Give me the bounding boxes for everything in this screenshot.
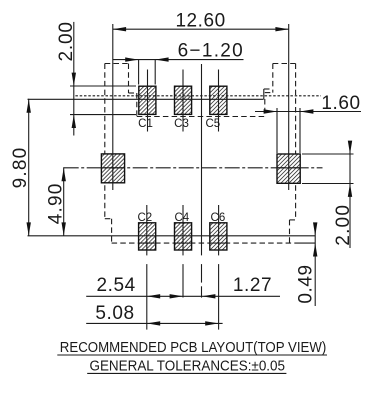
body outline left edge [104, 64, 106, 219]
svg-text:4.90: 4.90 [46, 183, 67, 225]
body outline top-left inner vertical [136, 93, 138, 117]
dimension 2.00 top-left extension top [70, 85, 136, 87]
svg-text:2.54: 2.54 [97, 275, 136, 296]
dimension 9.80 line [28, 99, 30, 236]
arrow 2.54 left [147, 294, 160, 298]
arrow 1.27 left [202, 294, 215, 298]
body outline bottom-left jog vertical [111, 219, 113, 243]
svg-text:9.80: 9.80 [10, 147, 31, 189]
body outline bottom-left jog horizontal [105, 218, 112, 220]
arrow 5.08 left [147, 321, 160, 325]
top seam line dashed [75, 95, 321, 97]
dimension 2.00 right extension top [302, 153, 354, 155]
dimension 2.00 top-left extension bottom [70, 114, 136, 116]
arrow 4.90 top [62, 168, 66, 181]
arrow 2.00 top-left upper [72, 73, 76, 86]
svg-text:1.60: 1.60 [321, 93, 360, 114]
bottom seam solid segment across pad C6 [210, 242, 227, 244]
dimension 2.00 top-left line [73, 22, 75, 136]
dimension 2.00 right line [349, 146, 351, 248]
dimension 1.60 right extension [299, 108, 301, 153]
svg-text:C5: C5 [205, 118, 220, 130]
pad C3 [175, 86, 192, 114]
dimension 2.00 right extension bottom [302, 183, 354, 185]
dimension 1.60 left extension [276, 108, 278, 153]
lead line pad C2 [146, 205, 148, 255]
arrow 0.49 upper [313, 222, 317, 235]
body outline right edge [295, 64, 297, 220]
body outline inner edge under top pads [137, 116, 265, 118]
svg-text:0.49: 0.49 [296, 264, 317, 303]
arrow 12.60 right [275, 27, 288, 31]
arrow 9.80 top [27, 99, 31, 112]
pad C1 [139, 86, 156, 114]
svg-text:C6: C6 [211, 212, 226, 224]
arrow 0.49 lower [313, 243, 317, 256]
footer line 2 underline [87, 372, 286, 374]
svg-text:5.08: 5.08 [95, 303, 134, 324]
bottom seam solid segment across pad C2 [138, 242, 155, 244]
arrow 6-1.20 right [155, 57, 168, 61]
body outline top-right inner vertical [264, 99, 266, 117]
pad C4 [175, 223, 192, 250]
middle pads center line horizontal [64, 167, 323, 169]
vertical center line [201, 64, 203, 255]
dimension 6-1.20 right extension [154, 60, 156, 85]
svg-text:RECOMMENDED PCB LAYOUT(TOP VIE: RECOMMENDED PCB LAYOUT(TOP VIEW) [60, 340, 327, 356]
bottom seam line solid / 9.80 4.90 bottom reference [28, 235, 316, 237]
lead line pad C6 [218, 205, 220, 255]
bottom seam line lower / 0.49 lower reference [298, 242, 315, 244]
body outline bottom-right jog horizontal [290, 219, 296, 221]
right side pad [277, 154, 300, 183]
dimension 5.08 line [86, 322, 222, 324]
seam step vertical [263, 89, 265, 99]
arrow 9.80 bottom [27, 222, 31, 235]
svg-text:6−1.20: 6−1.20 [178, 41, 244, 62]
pad C6 [210, 223, 227, 250]
middle line solid across left pad [101, 167, 124, 169]
extension dashed below pad C4 [182, 264, 184, 297]
arrow 4.90 bottom [62, 222, 66, 235]
arrow 2.54 right [170, 294, 183, 298]
svg-text:GENERAL TOLERANCES:±0.05: GENERAL TOLERANCES:±0.05 [90, 359, 286, 375]
svg-text:C2: C2 [137, 212, 152, 224]
arrow 2.00 top-left lower [72, 115, 76, 128]
top seam line solid / 9.80 top reference [28, 98, 264, 100]
footer line 1 underline [57, 354, 327, 356]
body outline bottom edge dashed [112, 242, 298, 244]
arrow 1.60 left [264, 109, 277, 113]
lead line pad C4 [182, 205, 184, 255]
left side pad [101, 154, 124, 183]
arrow 5.08 right [205, 321, 218, 325]
body outline top-right top edge [273, 63, 296, 65]
arrow 12.60 left [113, 27, 126, 31]
pad C5 [210, 86, 227, 114]
dimension 12.60 left extension [112, 24, 114, 190]
arrow 2.00 right lower [348, 184, 352, 197]
body outline top-left notch stub [129, 92, 138, 94]
body outline top-right notch vertical [272, 64, 274, 93]
lead line pad C3 [182, 70, 184, 132]
body outline top-right notch stub [265, 92, 273, 94]
svg-text:12.60: 12.60 [175, 11, 225, 32]
dimension 6-1.20 line [113, 59, 244, 61]
middle line solid across right pad [277, 167, 300, 169]
seam step stub [264, 88, 270, 90]
bottom seam solid segment across pad C4 [174, 242, 191, 244]
body outline bottom-right jog vertical [289, 220, 291, 243]
extension dashed below pad C2 [146, 264, 148, 330]
dimension 0.49 line [314, 227, 316, 306]
svg-text:2.00: 2.00 [56, 21, 77, 61]
dimension 2.54 and 1.27 line [86, 295, 280, 297]
body outline top-left notch vertical [128, 64, 130, 94]
arrow 1.60 right [300, 109, 313, 113]
dimension 12.60 line [113, 28, 289, 30]
dimension 6-1.20 left extension [138, 60, 140, 85]
svg-text:C3: C3 [174, 118, 189, 130]
svg-text:C1: C1 [138, 118, 153, 130]
extension dashed below pad C6 [218, 264, 220, 330]
pad C2 [139, 223, 156, 250]
dimension 4.90 line [63, 167, 65, 236]
svg-text:C4: C4 [174, 212, 189, 224]
dimension 12.60 right extension [288, 24, 290, 190]
svg-text:2.00: 2.00 [333, 204, 354, 246]
svg-text:1.27: 1.27 [233, 275, 272, 296]
body outline top-left top edge [105, 63, 129, 65]
arrow 6-1.20 left [125, 57, 138, 61]
lead line pad C5 [218, 70, 220, 132]
dimension 1.60 line [255, 111, 361, 113]
lead line pad C1 [147, 70, 149, 132]
arrow 2.00 right upper [348, 141, 352, 154]
